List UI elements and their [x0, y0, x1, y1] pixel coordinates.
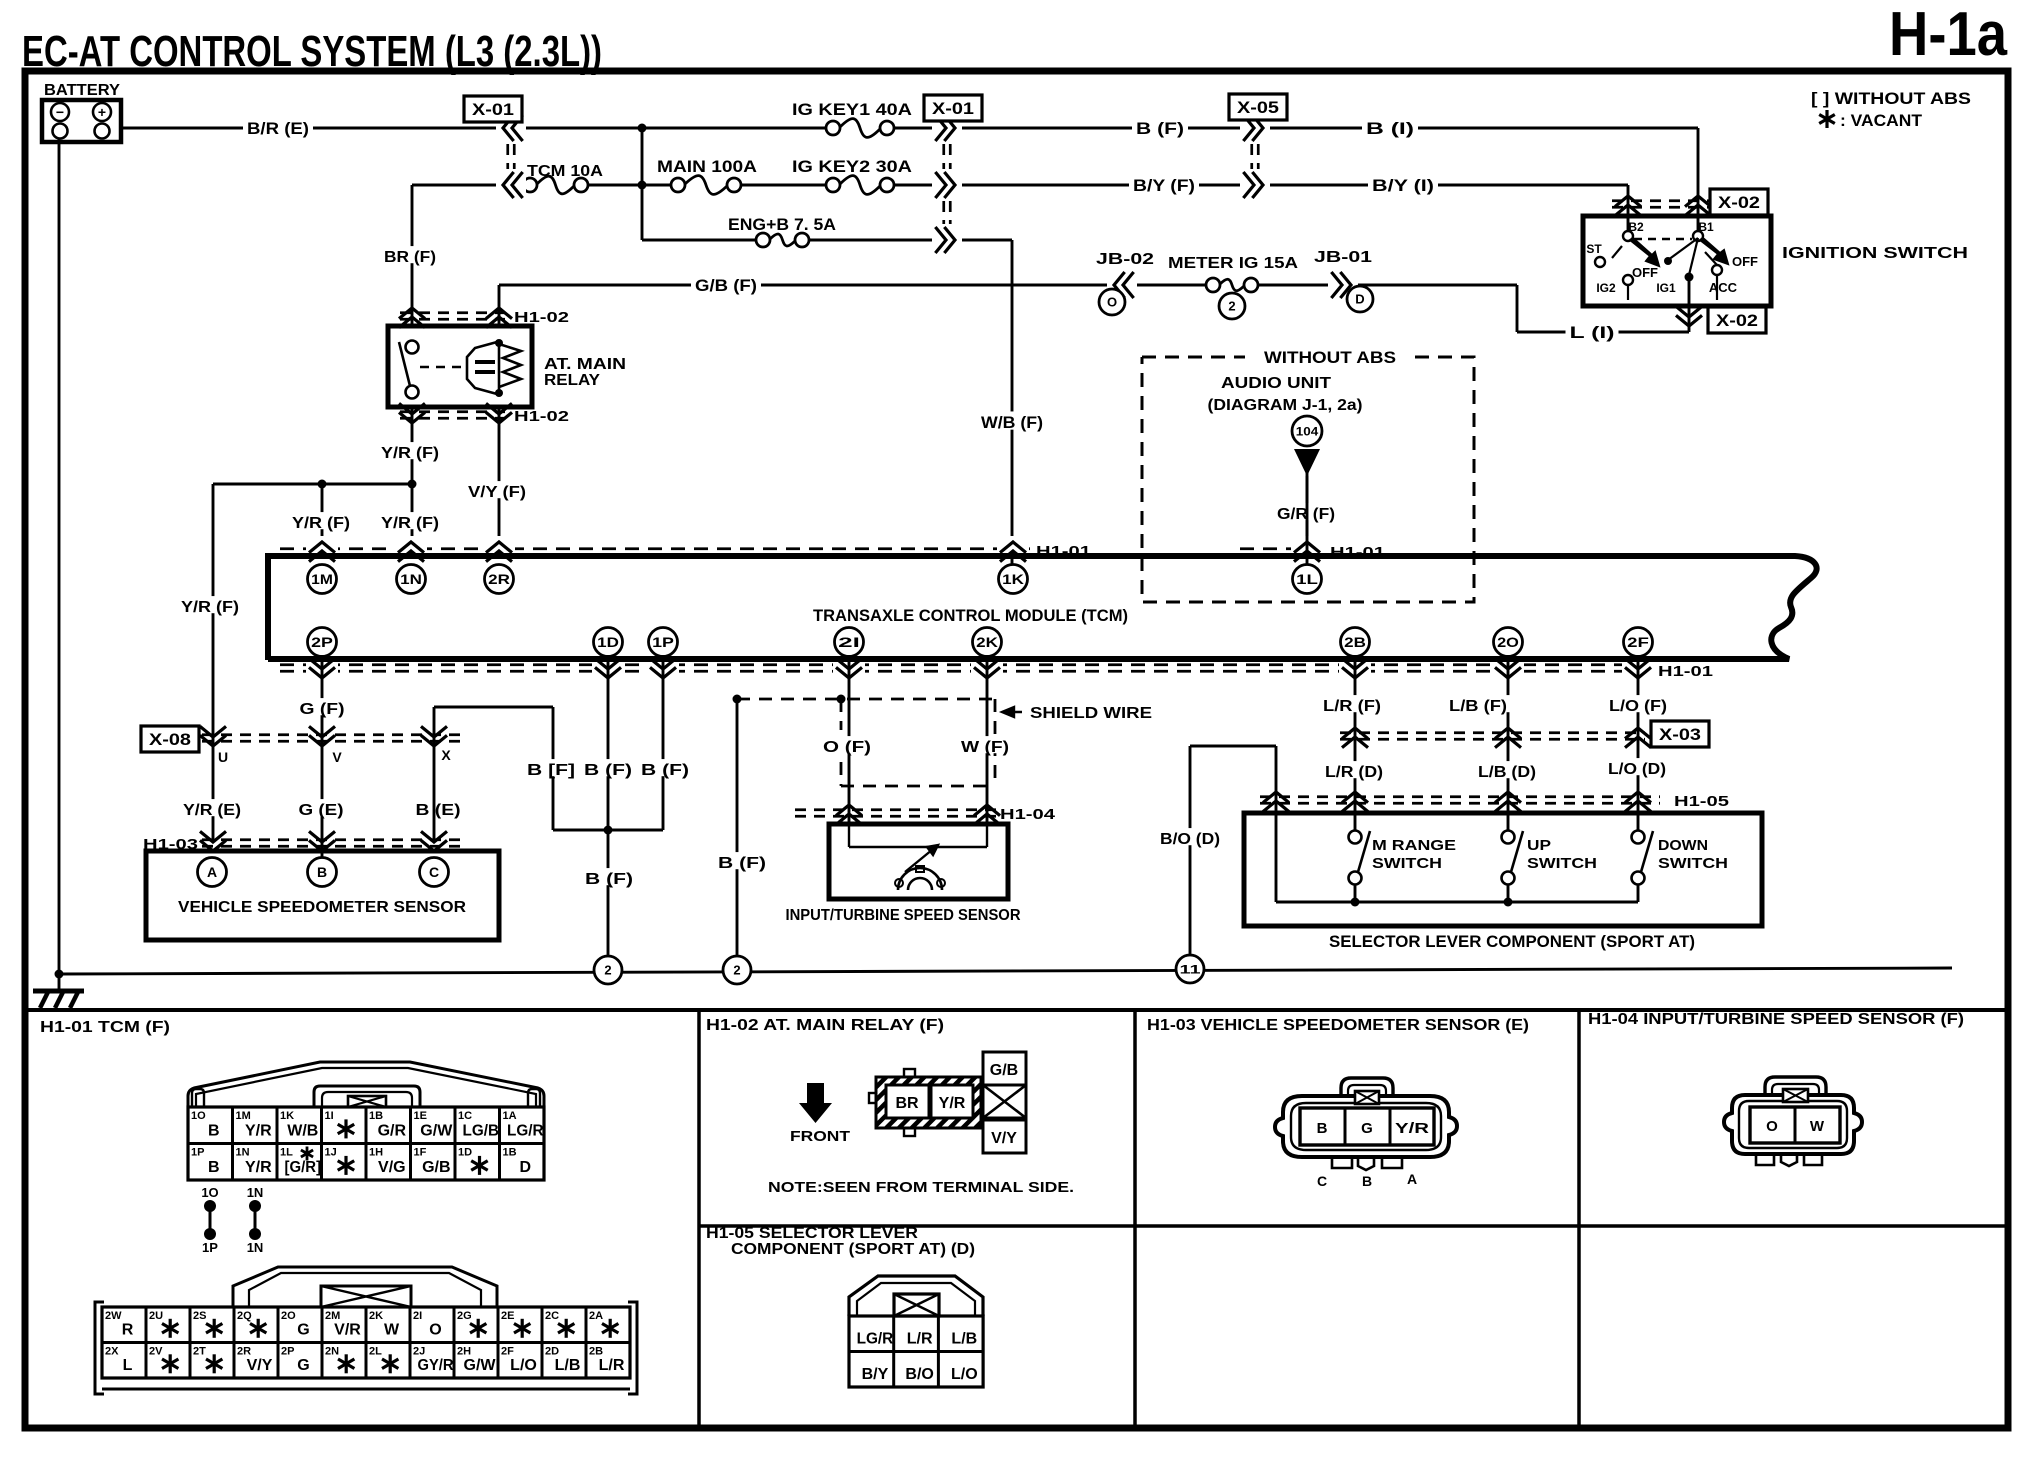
svg-text:B (F): B (F) — [585, 871, 633, 888]
svg-text:2M: 2M — [325, 1310, 340, 1322]
svg-text:G: G — [297, 1357, 309, 1374]
svg-text:X-08: X-08 — [149, 730, 191, 749]
svg-text:G (F): G (F) — [300, 701, 345, 718]
svg-text:2D: 2D — [545, 1346, 559, 1358]
svg-text:104: 104 — [1296, 424, 1319, 438]
svg-text:X: X — [441, 747, 451, 763]
svg-text:X-01: X-01 — [932, 99, 974, 118]
svg-text:JB-01: JB-01 — [1314, 249, 1372, 266]
svg-text:B (F): B (F) — [1136, 119, 1184, 138]
svg-text:LG/R: LG/R — [507, 1123, 544, 1140]
svg-text:2O: 2O — [281, 1310, 296, 1322]
svg-text:[G/R]: [G/R] — [285, 1159, 322, 1176]
svg-text:2K: 2K — [976, 634, 998, 650]
svg-text:W: W — [384, 1322, 400, 1339]
svg-text:1P: 1P — [652, 634, 674, 650]
svg-text:G/R: G/R — [378, 1123, 407, 1140]
svg-text:V/Y: V/Y — [991, 1130, 1017, 1147]
svg-text:2X: 2X — [105, 1346, 119, 1358]
svg-text:B: B — [208, 1123, 220, 1140]
svg-text:G/B: G/B — [990, 1062, 1018, 1079]
svg-text:O: O — [429, 1322, 441, 1339]
svg-text:2G: 2G — [457, 1310, 472, 1322]
svg-text:Y/R (F): Y/R (F) — [381, 515, 439, 532]
svg-text:1N: 1N — [247, 1185, 264, 1200]
svg-text:O (F): O (F) — [823, 739, 871, 756]
svg-text:2I: 2I — [413, 1310, 422, 1322]
svg-text:COMPONENT (SPORT AT) (D): COMPONENT (SPORT AT) (D) — [731, 1241, 975, 1258]
svg-text:G/W: G/W — [420, 1123, 453, 1140]
svg-text:1A: 1A — [503, 1110, 517, 1122]
svg-text:Y/R: Y/R — [245, 1123, 272, 1140]
svg-text:V: V — [332, 749, 342, 765]
svg-text:2O: 2O — [1497, 634, 1519, 650]
svg-text:ENG+B 7. 5A: ENG+B 7. 5A — [728, 215, 836, 234]
svg-text:B/R (E): B/R (E) — [247, 119, 309, 138]
svg-text:2E: 2E — [501, 1310, 514, 1322]
svg-text:1B: 1B — [369, 1110, 383, 1122]
svg-text:X-02: X-02 — [1718, 193, 1760, 212]
svg-text:1M: 1M — [236, 1110, 251, 1122]
svg-text:B [F]: B [F] — [527, 762, 575, 779]
svg-text:BATTERY: BATTERY — [44, 82, 120, 99]
svg-text:D: D — [1355, 292, 1364, 307]
svg-text:H1-04 INPUT/TURBINE SPEED SENS: H1-04 INPUT/TURBINE SPEED SENSOR (F) — [1588, 1011, 1964, 1028]
svg-text:B: B — [1317, 1120, 1328, 1137]
svg-text:2C: 2C — [545, 1310, 559, 1322]
svg-text:M RANGE: M RANGE — [1372, 837, 1456, 854]
svg-text:V/R: V/R — [334, 1322, 361, 1339]
svg-text:[ ] WITHOUT ABS: [ ] WITHOUT ABS — [1811, 89, 1971, 108]
svg-text:B: B — [208, 1159, 220, 1176]
svg-text:1C: 1C — [458, 1110, 472, 1122]
svg-text:TRANSAXLE CONTROL MODULE (TCM): TRANSAXLE CONTROL MODULE (TCM) — [813, 606, 1128, 625]
svg-text:B (F): B (F) — [584, 762, 632, 779]
svg-text:L/R (F): L/R (F) — [1323, 698, 1381, 715]
svg-text:BR (F): BR (F) — [384, 249, 436, 266]
svg-text:2V: 2V — [149, 1346, 163, 1358]
svg-text:O: O — [1107, 295, 1117, 310]
svg-text:(DIAGRAM J-1, 2a): (DIAGRAM J-1, 2a) — [1208, 397, 1363, 414]
svg-text:IG2: IG2 — [1596, 281, 1616, 295]
svg-text:2H: 2H — [457, 1346, 471, 1358]
svg-text:1P: 1P — [191, 1147, 204, 1159]
svg-text:L/R: L/R — [907, 1331, 933, 1348]
svg-text:G (E): G (E) — [299, 802, 344, 819]
svg-text:2I: 2I — [838, 634, 860, 650]
svg-text:H1-01: H1-01 — [1658, 663, 1713, 680]
svg-text:WITHOUT ABS: WITHOUT ABS — [1264, 348, 1396, 367]
svg-text:2: 2 — [1228, 299, 1235, 314]
svg-text:Y/R (F): Y/R (F) — [292, 515, 350, 532]
svg-text:1P: 1P — [202, 1240, 218, 1255]
svg-text:IGNITION SWITCH: IGNITION SWITCH — [1782, 245, 1968, 262]
svg-text:B/O: B/O — [905, 1366, 933, 1383]
svg-text:2P: 2P — [311, 634, 333, 650]
svg-text:2Q: 2Q — [237, 1310, 252, 1322]
svg-text:C: C — [429, 864, 439, 880]
svg-text:UP: UP — [1527, 837, 1551, 854]
svg-text:W/B (F): W/B (F) — [981, 413, 1043, 432]
svg-text:1O: 1O — [201, 1185, 218, 1200]
svg-text:2J: 2J — [413, 1346, 425, 1358]
svg-text:V/G: V/G — [378, 1159, 406, 1176]
svg-text:H1-05: H1-05 — [1674, 793, 1729, 810]
svg-text:G: G — [297, 1322, 309, 1339]
svg-text:G/W: G/W — [464, 1357, 497, 1374]
svg-text:V/Y (F): V/Y (F) — [468, 484, 526, 501]
svg-text:Y/R: Y/R — [939, 1095, 966, 1112]
svg-text:2L: 2L — [369, 1346, 382, 1358]
svg-text:2A: 2A — [589, 1310, 603, 1322]
svg-text:Y/R (F): Y/R (F) — [181, 599, 239, 616]
svg-text:RELAY: RELAY — [544, 372, 600, 389]
svg-text:L/O (D): L/O (D) — [1608, 761, 1666, 778]
svg-text:X-01: X-01 — [472, 100, 514, 119]
svg-text:B/Y (F): B/Y (F) — [1133, 176, 1195, 195]
svg-text:W (F): W (F) — [961, 739, 1009, 756]
svg-text:1O: 1O — [191, 1110, 206, 1122]
svg-text:G/B (F): G/B (F) — [695, 276, 757, 295]
svg-text:1K: 1K — [1002, 571, 1024, 587]
svg-text:G: G — [1361, 1120, 1373, 1137]
svg-text:H1-03 VEHICLE SPEEDOMETER SENS: H1-03 VEHICLE SPEEDOMETER SENSOR (E) — [1147, 1017, 1529, 1034]
svg-text:B (I): B (I) — [1366, 119, 1414, 138]
svg-text:2R: 2R — [237, 1346, 251, 1358]
svg-text:2W: 2W — [105, 1310, 122, 1322]
svg-text:1N: 1N — [247, 1240, 264, 1255]
svg-text:1L: 1L — [280, 1147, 293, 1159]
svg-text:AT. MAIN: AT. MAIN — [544, 356, 626, 373]
svg-text:1E: 1E — [414, 1110, 427, 1122]
svg-text:Y/R: Y/R — [1395, 1120, 1429, 1137]
svg-text:ST: ST — [1586, 242, 1602, 256]
svg-text:ACC: ACC — [1709, 280, 1738, 295]
svg-text:1H: 1H — [369, 1147, 383, 1159]
svg-text:B (F): B (F) — [718, 855, 766, 872]
svg-text:1D: 1D — [458, 1147, 472, 1159]
svg-text:1N: 1N — [400, 571, 422, 587]
svg-text:B2: B2 — [1628, 220, 1644, 234]
svg-text:H1-02: H1-02 — [514, 309, 569, 326]
svg-text:H1-04: H1-04 — [1000, 806, 1056, 823]
svg-text:METER IG 15A: METER IG 15A — [1168, 255, 1299, 272]
svg-text:L/B (D): L/B (D) — [1478, 764, 1536, 781]
svg-text:L/B (F): L/B (F) — [1449, 698, 1507, 715]
svg-text:IG1: IG1 — [1656, 281, 1676, 295]
svg-text:L/O (F): L/O (F) — [1609, 698, 1667, 715]
svg-text:G/B: G/B — [422, 1159, 450, 1176]
svg-text:B (F): B (F) — [641, 762, 689, 779]
svg-text:SWITCH: SWITCH — [1527, 855, 1597, 872]
svg-text:A: A — [207, 864, 217, 880]
svg-text:1I: 1I — [325, 1110, 334, 1122]
svg-text:LG/R: LG/R — [857, 1331, 894, 1348]
svg-text:U: U — [218, 749, 228, 765]
svg-text:2F: 2F — [1627, 634, 1649, 650]
svg-text:1L: 1L — [1296, 571, 1318, 587]
svg-text:L: L — [123, 1357, 133, 1374]
svg-text:OFF: OFF — [1732, 254, 1758, 269]
svg-text:AUDIO UNIT: AUDIO UNIT — [1221, 375, 1331, 392]
svg-text:OFF: OFF — [1632, 265, 1658, 280]
svg-text:BR: BR — [895, 1095, 919, 1112]
svg-text:−: − — [56, 104, 64, 120]
svg-text:2F: 2F — [501, 1346, 514, 1358]
svg-text:LG/B: LG/B — [463, 1123, 500, 1140]
svg-text:2N: 2N — [325, 1346, 339, 1358]
svg-text:1K: 1K — [280, 1110, 294, 1122]
svg-text:2U: 2U — [149, 1310, 163, 1322]
svg-text:X-05: X-05 — [1237, 98, 1279, 117]
svg-text:NOTE:SEEN FROM TERMINAL SIDE.: NOTE:SEEN FROM TERMINAL SIDE. — [768, 1179, 1074, 1196]
svg-text:VEHICLE SPEEDOMETER SENSOR: VEHICLE SPEEDOMETER SENSOR — [178, 899, 466, 916]
svg-text:SELECTOR LEVER COMPONENT (SPOR: SELECTOR LEVER COMPONENT (SPORT AT) — [1329, 932, 1695, 951]
svg-text:L (I): L (I) — [1570, 323, 1615, 342]
svg-text:H1-02 AT. MAIN RELAY (F): H1-02 AT. MAIN RELAY (F) — [706, 1017, 944, 1034]
svg-text:2R: 2R — [488, 571, 510, 587]
svg-text:B/Y (I): B/Y (I) — [1372, 176, 1434, 195]
svg-text:L/O: L/O — [951, 1366, 978, 1383]
svg-text:B: B — [317, 864, 327, 880]
svg-text:1B: 1B — [503, 1147, 517, 1159]
svg-text:1D: 1D — [597, 634, 619, 650]
svg-text:TCM 10A: TCM 10A — [527, 163, 603, 180]
svg-text:11: 11 — [1180, 962, 1202, 976]
svg-text:DOWN: DOWN — [1658, 837, 1708, 854]
svg-text:2B: 2B — [589, 1346, 603, 1358]
svg-text:1J: 1J — [325, 1147, 337, 1159]
svg-text:1N: 1N — [236, 1147, 250, 1159]
svg-text:SHIELD WIRE: SHIELD WIRE — [1030, 705, 1152, 722]
svg-text:H1-05 SELECTOR LEVER: H1-05 SELECTOR LEVER — [706, 1225, 918, 1242]
svg-text:B/Y: B/Y — [862, 1366, 889, 1383]
svg-text:W: W — [1810, 1118, 1825, 1135]
svg-text:R: R — [122, 1322, 134, 1339]
svg-text:L/R (D): L/R (D) — [1325, 764, 1383, 781]
svg-text:1F: 1F — [414, 1147, 427, 1159]
svg-text:O: O — [1766, 1118, 1778, 1135]
svg-text:D: D — [520, 1159, 532, 1176]
svg-text:: VACANT: : VACANT — [1840, 111, 1923, 130]
svg-text:SWITCH: SWITCH — [1658, 855, 1728, 872]
svg-text:B/O (D): B/O (D) — [1160, 831, 1220, 848]
svg-text:FRONT: FRONT — [790, 1128, 850, 1145]
svg-text:SWITCH: SWITCH — [1372, 855, 1442, 872]
svg-text:2: 2 — [604, 963, 611, 978]
svg-text:B (E): B (E) — [416, 802, 461, 819]
svg-text:A: A — [1407, 1171, 1417, 1187]
svg-text:B: B — [1362, 1173, 1372, 1189]
svg-text:H1-01: H1-01 — [1036, 543, 1091, 560]
svg-text:L/R: L/R — [599, 1357, 625, 1374]
svg-text:IG KEY2 30A: IG KEY2 30A — [792, 157, 912, 176]
svg-text:C: C — [1317, 1173, 1327, 1189]
svg-text:Y/R (F): Y/R (F) — [381, 445, 439, 462]
svg-text:H1-02: H1-02 — [514, 408, 569, 425]
svg-text:L/O: L/O — [510, 1357, 537, 1374]
svg-text:GY/R: GY/R — [418, 1357, 454, 1374]
svg-text:MAIN 100A: MAIN 100A — [657, 157, 757, 176]
svg-text:B1: B1 — [1698, 220, 1714, 234]
svg-text:L/B: L/B — [555, 1357, 581, 1374]
svg-text:2S: 2S — [193, 1310, 206, 1322]
svg-text:IG KEY1 40A: IG KEY1 40A — [792, 100, 912, 119]
svg-text:H1-01 TCM (F): H1-01 TCM (F) — [40, 1019, 170, 1036]
svg-text:Y/R (E): Y/R (E) — [183, 802, 241, 819]
svg-text:2: 2 — [733, 963, 740, 978]
svg-text:H-1a: H-1a — [1889, 0, 2007, 69]
svg-text:2B: 2B — [1344, 634, 1366, 650]
svg-text:X-03: X-03 — [1659, 725, 1701, 744]
svg-text:+: + — [98, 104, 106, 120]
svg-text:JB-02: JB-02 — [1096, 251, 1154, 268]
svg-text:1M: 1M — [311, 571, 333, 587]
svg-text:2K: 2K — [369, 1310, 383, 1322]
svg-text:Y/R: Y/R — [245, 1159, 272, 1176]
svg-text:2P: 2P — [281, 1346, 294, 1358]
svg-text:V/Y: V/Y — [247, 1357, 273, 1374]
svg-text:2T: 2T — [193, 1346, 206, 1358]
svg-text:W/B: W/B — [287, 1123, 318, 1140]
svg-text:INPUT/TURBINE SPEED SENSOR: INPUT/TURBINE SPEED SENSOR — [786, 907, 1021, 924]
svg-text:X-02: X-02 — [1716, 311, 1758, 330]
svg-text:L/B: L/B — [951, 1331, 977, 1348]
